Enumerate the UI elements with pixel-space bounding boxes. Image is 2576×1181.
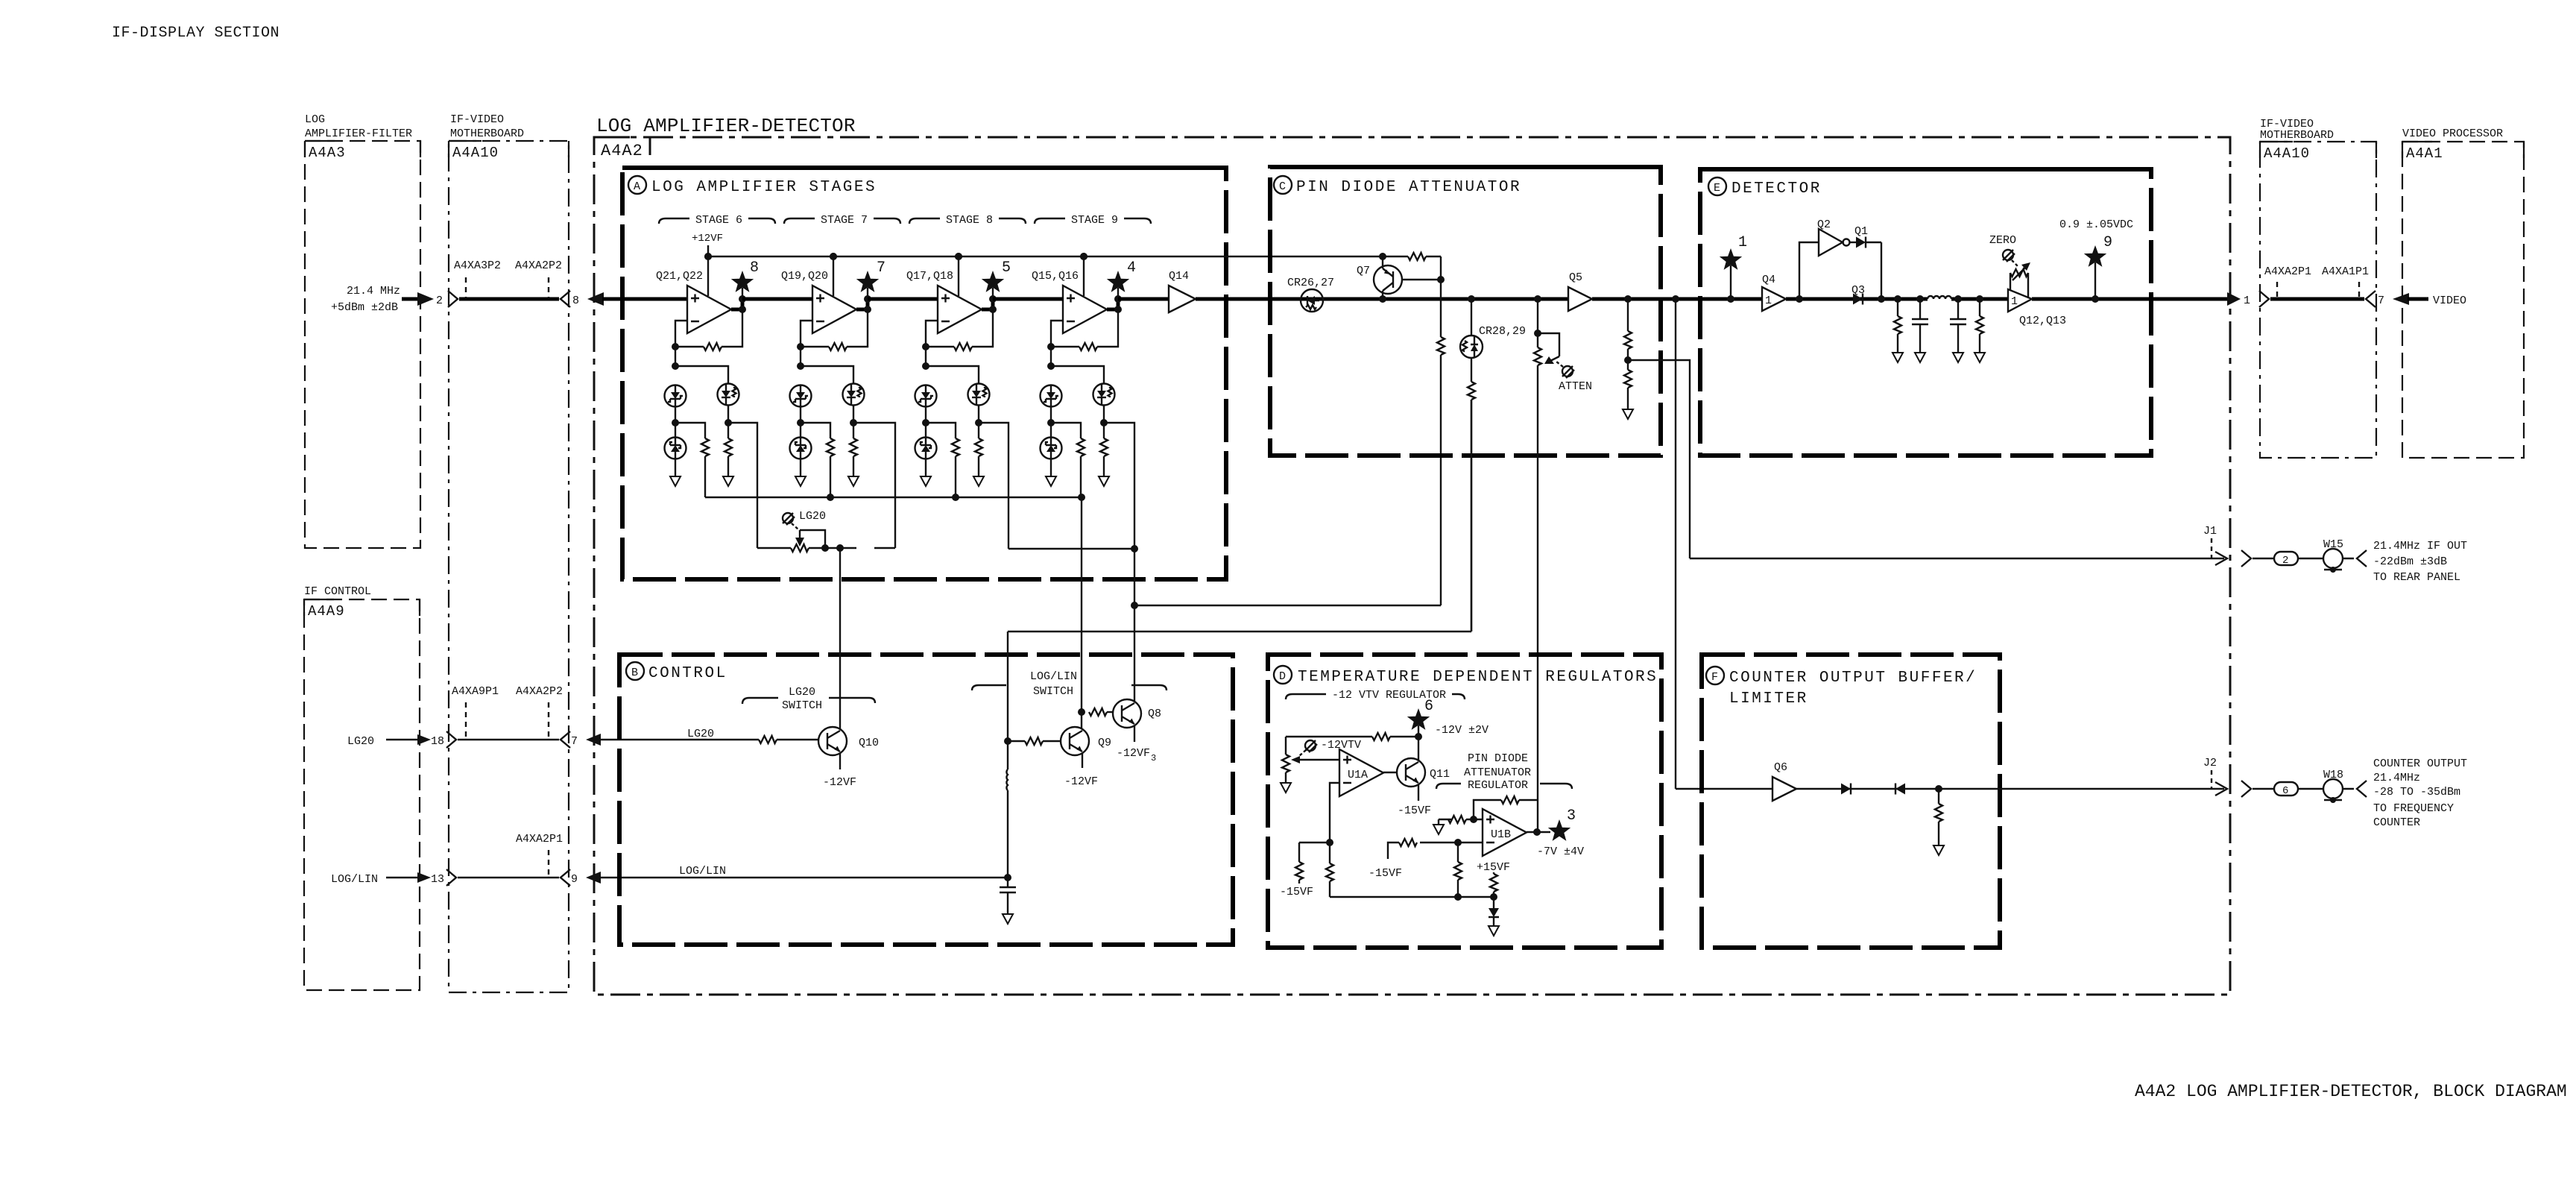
wire Q10 emitter: [839, 753, 841, 769]
box A4A2 LOG AMPLIFIER-DETECTOR (outer dash-dot): [594, 115, 2230, 995]
bracket STAGE 8: [909, 218, 1026, 224]
ground: [1281, 783, 1291, 793]
wire Q11 emitter: [1418, 784, 1419, 801]
svg-text:Q6: Q6: [1774, 761, 1787, 774]
adjustment ATTEN: [1562, 366, 1574, 378]
box A4A9 IF CONTROL: [304, 585, 420, 990]
wire LG20 arrow: [386, 739, 419, 740]
svg-text:A4A2 LOG AMPLIFIER-DETECTOR, B: A4A2 LOG AMPLIFIER-DETECTOR, BLOCK DIAGR…: [2135, 1082, 2567, 1101]
amplifier stage 6 Q21,Q22: [665, 253, 754, 497]
wire bottom rail: [1330, 896, 1494, 898]
svg-text:Q12,Q13: Q12,Q13: [2019, 315, 2066, 327]
filter resistor 1: [1894, 295, 1901, 303]
wire stage6 gain chain: [728, 423, 757, 548]
wire Q7 emitter: [1382, 291, 1383, 299]
filter capacitor 2: [1954, 295, 1962, 303]
amplifier stage 8 Q17,Q18: [915, 253, 1005, 497]
svg-text:0.9 ±.05VDC: 0.9 ±.05VDC: [2059, 218, 2133, 231]
box C border: [1270, 167, 1661, 456]
svg-text:LOG/LIN: LOG/LIN: [331, 873, 378, 886]
wire video out arrow: [2227, 292, 2241, 306]
svg-text:LOG/LIN: LOG/LIN: [1030, 670, 1077, 683]
svg-text:PIN DIODE ATTENUATOR: PIN DIODE ATTENUATOR: [1296, 179, 1521, 196]
wire Q11 collector: [1418, 737, 1419, 760]
svg-text:A4XA2P2: A4XA2P2: [516, 685, 563, 698]
svg-text:A: A: [634, 180, 640, 193]
ground: [1915, 353, 1925, 362]
svg-text:A4A2: A4A2: [601, 142, 643, 160]
amplifier stage 9 Q15,Q16: [1041, 253, 1130, 497]
svg-text:IF-VIDEO: IF-VIDEO: [450, 113, 504, 126]
svg-text:13: 13: [431, 873, 444, 886]
wire Q9 collector to Q8 base node: [1081, 497, 1082, 728]
connector chevron: [2259, 291, 2269, 307]
svg-text:E: E: [1714, 182, 1720, 195]
inductor filter: [1928, 296, 1951, 299]
connector chevron: [446, 869, 456, 886]
op-amp U1B: [1483, 809, 1527, 856]
box F border: [1702, 655, 2000, 948]
wire to cable: [2253, 558, 2354, 559]
svg-text:-15VF: -15VF: [1398, 804, 1431, 817]
svg-text:C: C: [1279, 180, 1286, 193]
label F circle: [1706, 667, 1724, 684]
resistor +12VF feed: [1408, 253, 1426, 260]
svg-text:+12VF: +12VF: [692, 233, 723, 245]
svg-text:Q17,Q18: Q17,Q18: [906, 270, 953, 283]
ground: [1433, 825, 1444, 834]
svg-text:21.4MHz IF OUT: 21.4MHz IF OUT: [2373, 540, 2467, 552]
label A circle: [628, 176, 646, 194]
star 1: [1720, 248, 1742, 270]
wire U1B output star 3: [1527, 831, 1550, 833]
wiper wire to U1A: [1297, 759, 1339, 760]
svg-text:9: 9: [571, 873, 578, 886]
resistor CR28,29: [1471, 358, 1472, 382]
box A4A3 LOG AMPLIFIER-FILTER: [305, 113, 420, 548]
resistor U1B to +15VF rail: [1457, 843, 1459, 862]
svg-text:J1: J1: [2203, 525, 2217, 538]
svg-text:LOG AMPLIFIER STAGES: LOG AMPLIFIER STAGES: [651, 179, 877, 196]
svg-text:U1A: U1A: [1348, 769, 1368, 781]
resistor Q7 bias: [1437, 337, 1445, 355]
wire LOG/LIN arrow: [386, 877, 419, 878]
connector chevron: [446, 731, 456, 748]
svg-text:A4XA9P1: A4XA9P1: [452, 685, 499, 698]
svg-text:IF-DISPLAY SECTION: IF-DISPLAY SECTION: [112, 25, 280, 42]
svg-text:21.4 MHz: 21.4 MHz: [347, 285, 400, 297]
amplifier stage 7 Q19,Q20: [790, 253, 880, 497]
bracket regulator: [1436, 784, 1572, 789]
connector chevron: [2366, 291, 2375, 307]
wire into A box with left arrowhead: [587, 292, 604, 306]
wire Q8 emitter: [1134, 725, 1135, 742]
svg-text:+5dBm ±2dB: +5dBm ±2dB: [331, 301, 398, 314]
potentiometer ATTEN: [1537, 299, 1538, 347]
wire stage8 gain chain: [979, 423, 1008, 549]
svg-text:TO REAR PANEL: TO REAR PANEL: [2373, 571, 2460, 584]
svg-text:-28 TO -35dBm: -28 TO -35dBm: [2373, 786, 2460, 799]
connector chevron: [2357, 550, 2367, 567]
svg-text:LIMITER: LIMITER: [1729, 690, 1808, 708]
ground: [1003, 914, 1013, 924]
wire stage7 gain chain: [853, 423, 895, 548]
svg-text:21.4MHz: 21.4MHz: [2373, 772, 2420, 784]
bracket -12 VTV regulator: [1286, 694, 1465, 699]
transistor Q10: [818, 727, 847, 755]
svg-text:LOG: LOG: [305, 113, 325, 126]
svg-text:4: 4: [1127, 259, 1136, 277]
svg-text:1: 1: [2011, 295, 2018, 308]
svg-text:8: 8: [750, 259, 759, 277]
connector chevron: [2241, 781, 2251, 797]
ground: [1892, 353, 1903, 362]
svg-text:1: 1: [1738, 234, 1747, 251]
svg-text:A4A9: A4A9: [308, 603, 345, 620]
svg-text:9: 9: [2103, 234, 2112, 251]
wire LG20 pot row: [757, 547, 895, 549]
svg-text:-15VF: -15VF: [1280, 886, 1313, 898]
adjustment LG20: [783, 513, 795, 525]
wire Q7/Q8 link row: [1134, 355, 1441, 605]
wire input arrow: [402, 297, 419, 301]
svg-text:Q11: Q11: [1430, 768, 1450, 781]
ground: [1974, 353, 1985, 362]
star 9: [2084, 245, 2106, 267]
star 3: [1548, 819, 1570, 841]
label C circle: [1274, 176, 1292, 194]
svg-text:Q5: Q5: [1569, 271, 1582, 284]
wire main signal line through stages: [742, 297, 2227, 301]
svg-text:VIDEO: VIDEO: [2433, 295, 2466, 307]
svg-text:-7V ±4V: -7V ±4V: [1537, 845, 1584, 858]
svg-text:A4A1: A4A1: [2406, 145, 2443, 162]
svg-text:Q7: Q7: [1357, 265, 1370, 277]
svg-text:LG20: LG20: [799, 510, 826, 523]
svg-text:7: 7: [877, 259, 885, 277]
wire LG20 into control with left arrowhead: [586, 734, 601, 746]
svg-text:5: 5: [1002, 259, 1011, 277]
potentiometer LG20: [791, 544, 809, 552]
load resistor: [1935, 785, 1942, 793]
svg-text:STAGE 7: STAGE 7: [821, 214, 868, 227]
svg-text:STAGE 8: STAGE 8: [946, 214, 993, 227]
svg-text:SWITCH: SWITCH: [782, 699, 822, 712]
svg-text:A4A10: A4A10: [2264, 145, 2310, 162]
svg-text:D: D: [1279, 670, 1286, 683]
svg-text:J2: J2: [2203, 757, 2217, 769]
svg-text:F: F: [1711, 671, 1718, 684]
bracket LG20 switch: [742, 698, 875, 704]
connector chevron: [561, 731, 570, 748]
svg-text:18: 18: [431, 735, 444, 748]
wire gain bus: [705, 497, 1082, 498]
svg-text:8: 8: [572, 295, 579, 307]
diode limiter right: [1841, 784, 1851, 795]
svg-text:Q19,Q20: Q19,Q20: [781, 270, 828, 283]
transistor Q7: [1374, 265, 1402, 294]
wire Q10 collector: [839, 548, 841, 729]
svg-text:6: 6: [1424, 698, 1433, 715]
box D border: [1268, 655, 1661, 948]
wire stage9 gain chain: [1104, 423, 1134, 549]
box A4A10 IF-VIDEO MOTHERBOARD (left): [449, 113, 569, 992]
wire LOG/LIN riser to CR28,29: [1008, 400, 1471, 741]
svg-text:7: 7: [571, 735, 578, 748]
svg-text:3: 3: [1567, 807, 1576, 825]
star 6: [1407, 708, 1430, 730]
svg-text:3: 3: [1151, 753, 1156, 763]
wire video across A4A10: [2270, 297, 2364, 301]
svg-text:LG20: LG20: [347, 735, 374, 748]
wire motherboard LOG/LIN: [458, 877, 559, 878]
resistor divider lower: [1624, 370, 1632, 388]
resistor U1B feedback: [1474, 800, 1501, 819]
bracket STAGE 6: [659, 218, 775, 224]
connector chevron: [2357, 781, 2367, 797]
svg-text:Q9: Q9: [1098, 737, 1111, 749]
potentiometer ZERO: [2010, 273, 2028, 297]
inductor LOG/LIN: [1006, 741, 1008, 878]
buffer amplifier Q12,Q13: [2008, 289, 2032, 312]
svg-text:DETECTOR: DETECTOR: [1731, 180, 1822, 198]
wire Q7 collector: [1382, 256, 1383, 268]
wire to cable: [2253, 788, 2354, 790]
svg-text:PIN DIODE: PIN DIODE: [1468, 752, 1528, 765]
svg-text:2: 2: [436, 295, 443, 307]
svg-text:COUNTER OUTPUT: COUNTER OUTPUT: [2373, 758, 2467, 770]
resistor U1B noninverting: [1439, 819, 1483, 825]
transistor Q9: [1061, 727, 1089, 755]
cable number 2: [2274, 552, 2298, 565]
svg-text:A4XA2P1: A4XA2P1: [2264, 265, 2311, 278]
svg-text:REGULATOR: REGULATOR: [1468, 779, 1528, 792]
transistor Q11: [1397, 758, 1425, 787]
transistor Q8: [1113, 699, 1141, 728]
wire Q9 emitter: [1082, 753, 1083, 768]
connector chevron: [2241, 550, 2251, 567]
svg-text:Q15,Q16: Q15,Q16: [1032, 270, 1079, 283]
resistor LG20 base: [759, 736, 777, 743]
wire counter tap: [1676, 299, 1772, 789]
diode limiter left: [1895, 784, 1905, 795]
arrow J2: [2215, 782, 2227, 796]
svg-text:6: 6: [2282, 785, 2288, 797]
label B circle: [626, 662, 644, 680]
svg-text:MOTHERBOARD: MOTHERBOARD: [450, 127, 524, 140]
wire Q6 output: [1796, 788, 2224, 790]
svg-text:ATTENUATOR: ATTENUATOR: [1464, 766, 1531, 779]
resistor Q8 base: [1089, 708, 1107, 716]
box E border: [1700, 169, 2151, 456]
svg-text:ATTEN: ATTEN: [1559, 380, 1592, 393]
op-amp U1A: [1339, 749, 1383, 796]
svg-text:A4XA1P1: A4XA1P1: [2322, 265, 2369, 278]
svg-text:7: 7: [2378, 295, 2384, 307]
svg-text:A4XA2P1: A4XA2P1: [516, 833, 563, 845]
arrow J1: [2215, 552, 2227, 565]
box A4A1 VIDEO PROCESSOR: [2402, 127, 2524, 458]
svg-text:AMPLIFIER-FILTER: AMPLIFIER-FILTER: [305, 127, 412, 140]
svg-text:STAGE 9: STAGE 9: [1071, 214, 1118, 227]
wire U1A out to Q11 base: [1383, 772, 1397, 773]
svg-text:Q8: Q8: [1148, 708, 1161, 720]
wire motherboard LG20: [458, 739, 559, 740]
svg-text:-15VF: -15VF: [1368, 867, 1402, 880]
box B border: [619, 655, 1233, 945]
ground: [1623, 409, 1633, 419]
svg-text:Q10: Q10: [859, 737, 879, 749]
wire J1 tap: [1628, 360, 2224, 558]
svg-text:A4A3: A4A3: [309, 145, 346, 161]
wire LOG/LIN into control with left arrowhead: [586, 872, 601, 884]
bracket STAGE 9: [1035, 218, 1151, 224]
svg-text:COUNTER: COUNTER: [2373, 816, 2420, 829]
box A border: [622, 168, 1226, 579]
resistor -12V feedback: [1390, 736, 1418, 737]
connector chevron: [448, 291, 458, 307]
label D circle: [1274, 666, 1292, 684]
svg-text:-12V ±2V: -12V ±2V: [1435, 724, 1489, 737]
svg-text:STAGE 6: STAGE 6: [695, 214, 742, 227]
svg-text:SWITCH: SWITCH: [1033, 685, 1073, 698]
divider node after Q5: [1624, 295, 1632, 303]
connector chevron: [561, 291, 570, 307]
svg-text:-22dBm ±3dB: -22dBm ±3dB: [2373, 555, 2447, 568]
svg-text:A4XA2P2: A4XA2P2: [515, 259, 562, 272]
bracket STAGE 7: [784, 218, 900, 224]
capacitor LOG/LIN: [1007, 878, 1008, 887]
wire stage8/9 chain row: [1008, 548, 1134, 549]
svg-text:A4A10: A4A10: [452, 145, 499, 161]
cable number 6: [2274, 782, 2298, 796]
resistor U1A divider: [1329, 843, 1330, 863]
svg-text:VIDEO PROCESSOR: VIDEO PROCESSOR: [2402, 127, 2503, 140]
svg-text:-12VF: -12VF: [823, 776, 856, 789]
adjustment -12VTV: [1305, 740, 1317, 752]
svg-text:Q21,Q22: Q21,Q22: [656, 270, 703, 283]
wire U1A inverting input: [1330, 783, 1339, 843]
svg-text:1: 1: [1765, 295, 1772, 307]
connector chevron: [561, 869, 570, 886]
svg-text:ZERO: ZERO: [1989, 234, 2016, 247]
svg-text:CR26,27: CR26,27: [1287, 277, 1334, 289]
svg-text:COUNTER OUTPUT BUFFER/: COUNTER OUTPUT BUFFER/: [1729, 670, 1977, 687]
ground: [1489, 926, 1499, 936]
svg-text:TO FREQUENCY: TO FREQUENCY: [2373, 802, 2454, 815]
svg-text:LG20: LG20: [789, 686, 815, 699]
svg-text:CONTROL: CONTROL: [648, 665, 727, 682]
svg-text:MOTHERBOARD: MOTHERBOARD: [2260, 129, 2334, 142]
svg-text:Q1: Q1: [1854, 225, 1868, 238]
svg-text:Q4: Q4: [1762, 274, 1775, 286]
resistor divider upper: [1624, 331, 1632, 349]
svg-text:LOG/LIN: LOG/LIN: [679, 865, 726, 878]
svg-text:A4XA3P2: A4XA3P2: [454, 259, 501, 272]
svg-text:TEMPERATURE DEPENDENT REGULATO: TEMPERATURE DEPENDENT REGULATORS: [1298, 669, 1658, 686]
svg-text:LOG AMPLIFIER-DETECTOR: LOG AMPLIFIER-DETECTOR: [596, 115, 856, 137]
svg-text:+15VF: +15VF: [1477, 861, 1510, 874]
label E circle: [1708, 177, 1726, 195]
svg-text:1: 1: [2244, 295, 2250, 307]
svg-text:IF CONTROL: IF CONTROL: [304, 585, 371, 598]
wire Q7 base: [1402, 279, 1441, 280]
resistor U1B inverting input: [1458, 842, 1483, 843]
svg-text:U1B: U1B: [1491, 828, 1511, 841]
resistor -15VF left: [1299, 843, 1330, 862]
diode bottom: [1489, 908, 1499, 917]
wire +12VF rail: [708, 245, 1408, 256]
resistor Q9 base: [1025, 737, 1043, 745]
svg-text:Q14: Q14: [1169, 270, 1189, 283]
filter capacitor 1: [1916, 295, 1924, 303]
svg-text:CR28,29: CR28,29: [1479, 325, 1526, 338]
box A4A10 IF-VIDEO MOTHERBOARD (right): [2260, 118, 2376, 458]
svg-text:2: 2: [2282, 555, 2288, 567]
bracket LOG/LIN switch: [972, 685, 1167, 690]
filter resistor 2: [1976, 295, 1983, 303]
svg-text:-12VF: -12VF: [1117, 747, 1150, 760]
svg-text:LG20: LG20: [687, 728, 714, 740]
svg-text:-12VF: -12VF: [1064, 775, 1098, 788]
wire VIDEO in with left arrowhead: [2393, 293, 2409, 305]
potentiometer -12VTV: [1282, 755, 1289, 772]
wire Q8 collector: [1134, 549, 1135, 702]
wire to inverter Q2: [1796, 295, 1803, 303]
ground: [1953, 353, 1963, 362]
svg-text:B: B: [631, 667, 638, 679]
ground: [1933, 845, 1944, 855]
wire motherboard 21.4MHz: [459, 297, 559, 301]
